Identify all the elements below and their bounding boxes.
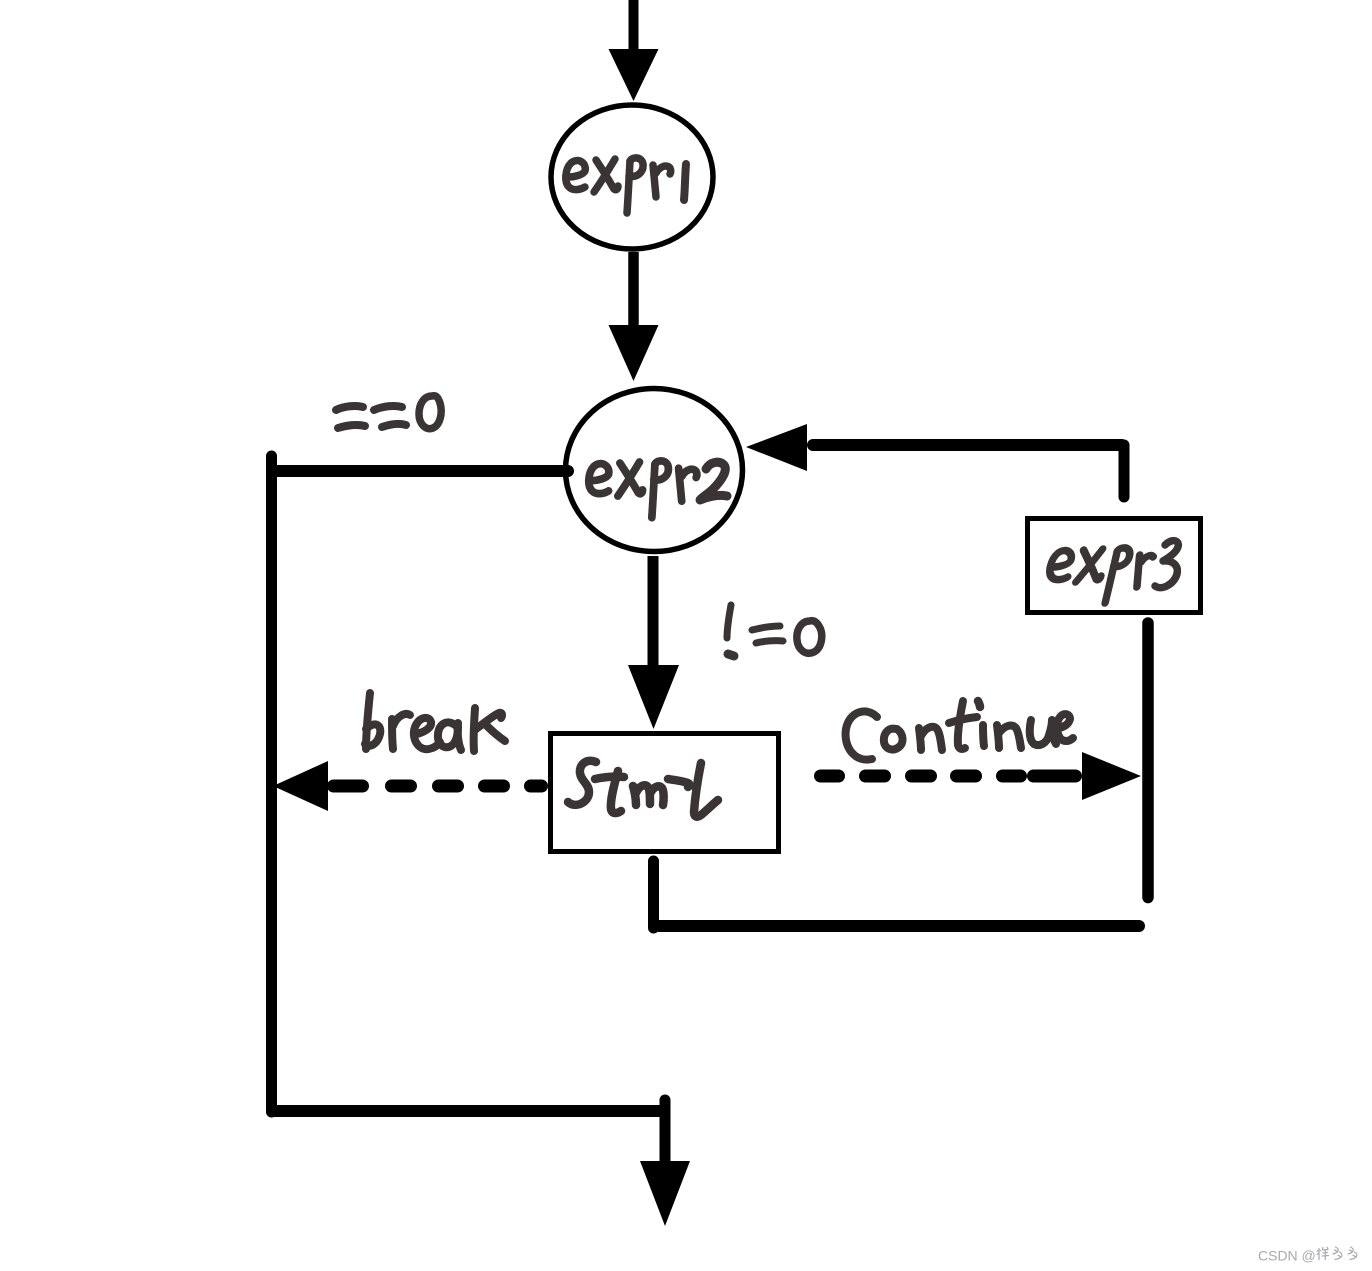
arrowhead: continue into right rail bbox=[1082, 752, 1141, 800]
label expr3 bbox=[1044, 548, 1155, 603]
label expr1 bbox=[566, 158, 686, 213]
label ==0 bbox=[336, 396, 441, 429]
label continue bbox=[846, 701, 1073, 760]
wire: return run from expr3 to expr2 bbox=[813, 439, 1122, 451]
wire: entry arrow shaft into expr1 bbox=[629, 0, 639, 53]
dashed wire: continue to right rail bbox=[821, 770, 1076, 783]
wire: bottom loop horizontal to right rail bbox=[659, 920, 1139, 932]
node expr3 (box) bbox=[1028, 519, 1201, 613]
dashed wire: break to left rail bbox=[334, 780, 542, 793]
node stmt (box) bbox=[551, 734, 779, 852]
wire: bottom run of left rail bbox=[272, 1105, 664, 1117]
svg-text:CSDN @: CSDN @ bbox=[1258, 1248, 1316, 1264]
arrowhead: break into left rail bbox=[273, 761, 328, 811]
arrowhead: into stmt bbox=[628, 665, 679, 729]
wire: stmt bottom down bbox=[648, 861, 659, 928]
wire: expr3 top stub up bbox=[1119, 445, 1130, 497]
label expr2 digit 2 bbox=[700, 462, 727, 500]
label expr2 bbox=[589, 461, 697, 518]
wire: left rail vertical bbox=[266, 456, 277, 1112]
arrowhead: entry into expr1 bbox=[609, 49, 659, 101]
wire: exit stub down bbox=[660, 1100, 671, 1163]
arrowhead: into expr2 from top bbox=[609, 325, 659, 381]
watermark CJK glyphs bbox=[1317, 1247, 1357, 1260]
wire: expr2 west to left rail (==0 branch) bbox=[272, 465, 568, 477]
node expr2 (circle) bbox=[566, 389, 743, 552]
wire: right rail vertical up to expr3 bbox=[1142, 623, 1154, 898]
label !=0 bbox=[727, 605, 822, 656]
label expr3 digit 3 bbox=[1155, 541, 1178, 588]
node expr1 (circle) bbox=[551, 105, 713, 249]
label break bbox=[365, 693, 505, 751]
wire: expr1 to expr2 shaft bbox=[628, 252, 639, 327]
arrowhead: return into expr2 bbox=[746, 424, 807, 471]
arrowhead: exit bottom bbox=[640, 1161, 690, 1226]
label stmt bbox=[568, 761, 718, 817]
wire: expr2 to stmt shaft (!=0 branch) bbox=[648, 556, 659, 668]
